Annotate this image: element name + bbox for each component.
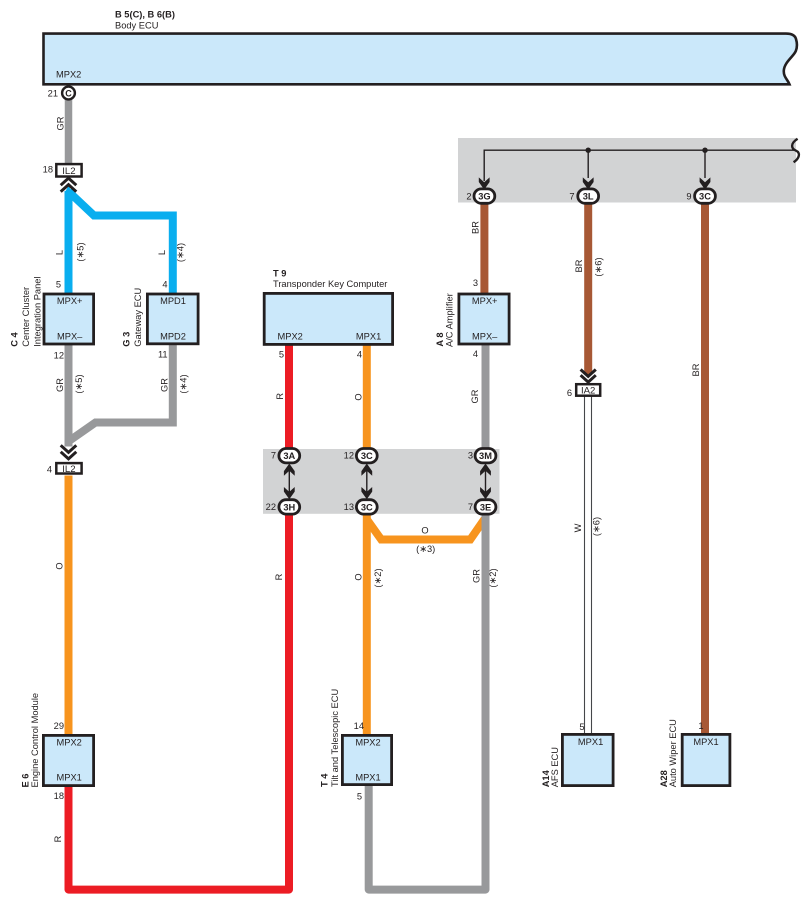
svg-text:3E: 3E	[480, 502, 491, 512]
svg-text:A 8: A 8	[435, 332, 445, 346]
svg-text:5: 5	[279, 350, 284, 360]
svg-text:4: 4	[357, 350, 362, 360]
svg-text:1: 1	[698, 721, 703, 731]
svg-text:9: 9	[686, 191, 691, 201]
svg-text:11: 11	[158, 349, 168, 359]
svg-text:4: 4	[473, 349, 478, 359]
svg-text:12: 12	[344, 451, 354, 461]
svg-text:3C: 3C	[361, 451, 373, 461]
svg-text:BR: BR	[574, 259, 584, 272]
svg-text:5: 5	[579, 722, 584, 732]
svg-text:Tilt and Telescopic ECU: Tilt and Telescopic ECU	[330, 689, 340, 787]
svg-text:O: O	[353, 393, 363, 400]
svg-text:3G: 3G	[478, 192, 490, 202]
svg-text:(∗5): (∗5)	[74, 374, 84, 393]
svg-text:22: 22	[266, 502, 276, 512]
svg-text:18: 18	[54, 791, 64, 801]
svg-text:GR: GR	[471, 569, 481, 583]
svg-text:Transponder Key Computer: Transponder Key Computer	[273, 279, 387, 289]
svg-text:MPD2: MPD2	[160, 332, 186, 342]
svg-text:3L: 3L	[583, 192, 594, 202]
svg-text:Center Cluster: Center Cluster	[21, 287, 31, 347]
svg-text:MPX2: MPX2	[278, 332, 303, 342]
svg-text:C: C	[65, 88, 72, 98]
svg-text:(∗3): (∗3)	[416, 544, 435, 554]
svg-text:7: 7	[569, 191, 574, 201]
svg-text:18: 18	[43, 164, 53, 174]
svg-text:(∗2): (∗2)	[488, 568, 498, 587]
svg-text:AFS ECU: AFS ECU	[550, 747, 560, 787]
svg-text:6: 6	[567, 388, 572, 398]
svg-text:GR: GR	[55, 378, 65, 392]
svg-text:5: 5	[56, 280, 61, 290]
svg-text:MPX1: MPX1	[355, 773, 380, 783]
svg-text:BR: BR	[691, 363, 701, 376]
svg-text:7: 7	[271, 451, 276, 461]
svg-text:(∗4): (∗4)	[176, 243, 186, 262]
svg-text:A/C Amplifier: A/C Amplifier	[444, 293, 454, 347]
svg-text:2: 2	[466, 191, 471, 201]
svg-text:W: W	[573, 523, 583, 532]
svg-text:GR: GR	[160, 378, 170, 392]
svg-text:T 9: T 9	[273, 268, 286, 278]
svg-text:MPX1: MPX1	[57, 773, 82, 783]
svg-text:IL2: IL2	[62, 464, 75, 475]
svg-text:L: L	[157, 250, 167, 255]
svg-text:(∗2): (∗2)	[373, 568, 383, 587]
svg-text:MPX1: MPX1	[578, 737, 603, 747]
svg-text:GR: GR	[470, 389, 480, 403]
svg-text:MPX2: MPX2	[355, 738, 380, 748]
svg-text:3: 3	[473, 278, 478, 288]
svg-text:5: 5	[357, 792, 362, 802]
svg-text:MPX+: MPX+	[472, 296, 498, 306]
svg-text:MPX2: MPX2	[57, 738, 82, 748]
svg-text:3H: 3H	[283, 502, 295, 512]
svg-text:3C: 3C	[699, 192, 711, 202]
svg-text:G 3: G 3	[122, 332, 132, 347]
svg-text:Integration Panel: Integration Panel	[32, 277, 42, 347]
svg-text:E 6: E 6	[20, 774, 30, 788]
svg-text:3: 3	[468, 451, 473, 461]
svg-text:(∗6): (∗6)	[593, 257, 603, 276]
svg-text:IL2: IL2	[62, 166, 75, 177]
svg-text:3A: 3A	[283, 451, 295, 461]
svg-text:(∗4): (∗4)	[178, 374, 188, 393]
svg-text:MPX–: MPX–	[57, 332, 83, 342]
svg-text:MPX2: MPX2	[56, 70, 81, 80]
svg-text:MPX1: MPX1	[693, 737, 718, 747]
svg-text:Engine Control Module: Engine Control Module	[30, 693, 40, 788]
svg-text:O: O	[421, 525, 428, 535]
svg-text:21: 21	[48, 89, 58, 99]
svg-text:O: O	[353, 573, 363, 580]
svg-text:(∗6): (∗6)	[591, 517, 601, 536]
svg-text:MPX+: MPX+	[57, 296, 83, 306]
svg-text:Gateway ECU: Gateway ECU	[133, 288, 143, 347]
svg-text:(∗5): (∗5)	[75, 242, 85, 261]
svg-text:BR: BR	[470, 221, 480, 234]
svg-text:T 4: T 4	[319, 773, 329, 787]
svg-text:3M: 3M	[479, 451, 492, 461]
svg-text:B 5(C), B 6(B): B 5(C), B 6(B)	[115, 9, 175, 19]
svg-text:R: R	[275, 393, 285, 400]
svg-text:3C: 3C	[361, 502, 373, 512]
svg-text:R: R	[53, 835, 63, 842]
svg-text:MPX1: MPX1	[356, 332, 381, 342]
svg-text:IA2: IA2	[581, 386, 595, 397]
svg-text:29: 29	[54, 721, 64, 731]
svg-text:13: 13	[344, 502, 354, 512]
svg-text:7: 7	[468, 502, 473, 512]
svg-text:4: 4	[47, 464, 52, 474]
svg-text:L: L	[54, 250, 64, 255]
svg-text:MPD1: MPD1	[160, 296, 186, 306]
svg-text:O: O	[54, 562, 64, 569]
svg-text:R: R	[274, 573, 284, 580]
svg-text:GR: GR	[55, 116, 65, 130]
svg-text:12: 12	[54, 350, 64, 360]
svg-text:Body ECU: Body ECU	[115, 21, 158, 31]
svg-text:C 4: C 4	[9, 332, 19, 347]
svg-text:14: 14	[354, 721, 364, 731]
svg-text:Auto Wiper ECU: Auto Wiper ECU	[668, 719, 678, 787]
svg-text:MPX–: MPX–	[472, 332, 498, 342]
svg-text:4: 4	[162, 279, 167, 289]
